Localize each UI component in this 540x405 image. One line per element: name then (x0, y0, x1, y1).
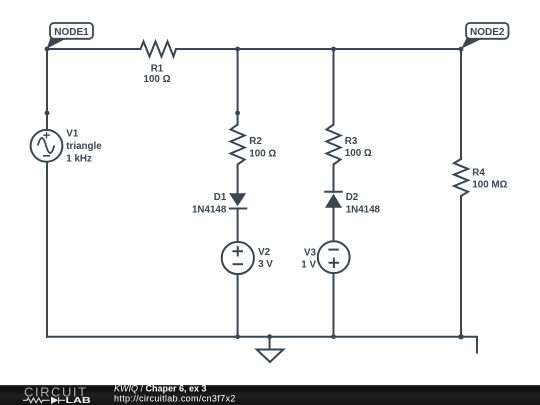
wire V3 to bottom rail (333, 273, 335, 337)
svg-text:D1: D1 (214, 192, 227, 203)
voltage source V2 (222, 242, 254, 274)
wire R2 to D1 (237, 165, 239, 194)
wire right column lower (R4 to bottom rail) (460, 196, 462, 337)
svg-text:100 MΩ: 100 MΩ (472, 180, 507, 191)
resistor R4 (454, 159, 468, 196)
svg-text:100 Ω: 100 Ω (249, 149, 276, 160)
footer title line (114, 384, 236, 404)
svg-text:triangle: triangle (66, 141, 102, 152)
logo LAB (66, 396, 92, 405)
label D1 (192, 192, 227, 216)
label R4 (472, 168, 507, 191)
svg-text:R2: R2 (249, 136, 262, 147)
node dot top R2 column (235, 47, 240, 52)
resistor R3 (327, 125, 341, 165)
wire top right (R1 to NODE2) (176, 48, 461, 50)
svg-text:1 kHz: 1 kHz (66, 153, 92, 164)
diode D2 (324, 192, 343, 208)
wire R2 column top (237, 49, 239, 125)
svg-text:R1: R1 (151, 64, 164, 75)
node dot bottom ground (267, 334, 272, 339)
diode D1 (229, 193, 248, 208)
svg-text:3 V: 3 V (258, 259, 273, 270)
logo schematic glyph (23, 397, 65, 404)
label V3 (301, 248, 316, 271)
voltage source V3 (318, 241, 350, 273)
svg-text:D2: D2 (346, 192, 359, 203)
svg-text:NODE2: NODE2 (470, 27, 505, 38)
wire V2 to bottom rail (237, 274, 239, 337)
logo diode glyph (51, 397, 58, 404)
svg-text:1 V: 1 V (301, 259, 316, 270)
node NODE1 label (47, 23, 93, 49)
svg-text:R4: R4 (472, 168, 485, 179)
svg-text:KWIQ / Chaper 6, ex 3: KWIQ / Chaper 6, ex 3 (114, 384, 207, 394)
label V1 (66, 129, 102, 165)
node dot bottom R3 column (331, 334, 336, 339)
footer bar (0, 385, 540, 405)
label R1 (144, 64, 171, 86)
wire ground stub (269, 337, 271, 350)
svg-text:100 Ω: 100 Ω (345, 148, 372, 159)
wire R3 to D2 (333, 165, 335, 192)
svg-text:V1: V1 (66, 129, 79, 140)
resistor R1 (141, 42, 177, 57)
wire D2 to V3 (333, 208, 335, 241)
wire stub bottom right (461, 337, 477, 353)
label R3 (345, 136, 372, 159)
label R2 (249, 136, 276, 159)
svg-text:R3: R3 (345, 136, 358, 147)
svg-text:V2: V2 (258, 247, 271, 258)
node dot top R3 column (331, 47, 336, 52)
node NODE2 label (461, 23, 508, 49)
node dot NODE1 corner (45, 47, 50, 52)
node dot bottom right (458, 334, 463, 339)
resistor R2 (231, 125, 245, 165)
svg-text:100 Ω: 100 Ω (144, 74, 171, 85)
wire left column lower (V1 to bottom rail) (46, 162, 48, 337)
wire R3 column top (333, 49, 335, 125)
label V2 (258, 247, 273, 270)
logo CIRCUIT (24, 385, 88, 400)
svg-text:http://circuitlab.com/cn3f7x2: http://circuitlab.com/cn3f7x2 (114, 394, 236, 404)
svg-text:1N4148: 1N4148 (192, 204, 227, 215)
node dot left column mid (45, 111, 50, 116)
svg-text:1N4148: 1N4148 (346, 205, 381, 216)
node dot NODE2 corner (459, 47, 464, 52)
wire right column upper (NODE2 to R4) (460, 49, 462, 159)
ground (257, 350, 284, 363)
voltage source V1 (31, 130, 63, 162)
label D2 (346, 192, 381, 216)
wire top left (NODE1 to R1) (47, 48, 141, 50)
node dot R2 column mid (235, 111, 240, 116)
svg-text:NODE1: NODE1 (54, 27, 89, 38)
wire bottom rail (47, 336, 461, 338)
wire D1 to V2 (237, 209, 239, 243)
svg-text:V3: V3 (304, 248, 317, 259)
node dot bottom R2 column (235, 334, 240, 339)
svg-text:LAB: LAB (66, 396, 92, 405)
wire left column upper (NODE1 down to V1) (46, 49, 48, 130)
